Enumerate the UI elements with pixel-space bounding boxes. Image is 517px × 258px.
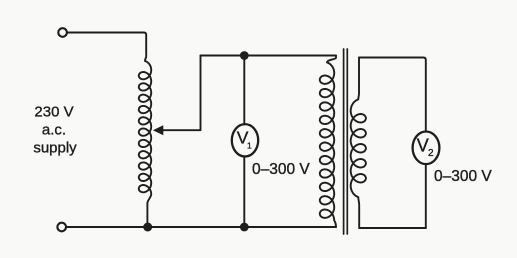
- wiper arrowhead: [153, 125, 163, 135]
- wiper arrow wire: [162, 56, 201, 131]
- wire V1 top: [243, 56, 245, 125]
- transformer primary winding: [320, 56, 336, 228]
- top wire: [201, 55, 337, 57]
- junction node bottom mid: [240, 223, 249, 232]
- svg-text:V: V: [417, 136, 429, 156]
- svg-text:1: 1: [247, 141, 252, 151]
- svg-text:supply: supply: [33, 140, 77, 157]
- svg-text:230 V: 230 V: [34, 104, 73, 121]
- wire V1 bottom: [243, 157, 245, 228]
- svg-text:0–300 V: 0–300 V: [252, 161, 310, 178]
- svg-text:a.c.: a.c.: [42, 122, 66, 139]
- wire V2 bottom: [425, 164, 427, 228]
- voltmeter V2: [413, 132, 440, 165]
- transformer core line left: [343, 49, 345, 234]
- bottom wire: [66, 226, 336, 228]
- svg-text:0–300 V: 0–300 V: [434, 168, 492, 185]
- voltmeter V1: [232, 124, 258, 156]
- autotransformer T1 winding: [139, 48, 151, 227]
- junction node top (V1 tap): [240, 51, 249, 60]
- wire top-left horizontal: [67, 33, 146, 49]
- secondary bottom wire: [359, 227, 426, 229]
- secondary top wire: [359, 58, 426, 132]
- transformer secondary winding: [351, 58, 366, 229]
- terminal top-left: [58, 28, 67, 37]
- junction node bottom left: [143, 223, 152, 232]
- terminal bottom-left: [57, 223, 66, 232]
- svg-text:2: 2: [428, 148, 434, 159]
- transformer core line right: [346, 49, 348, 234]
